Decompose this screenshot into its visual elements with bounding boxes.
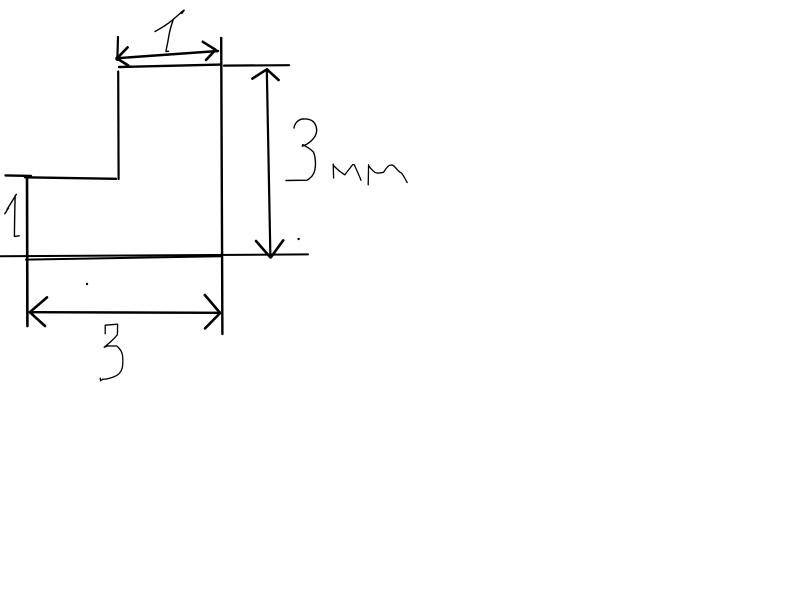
node: right dimension bottom arrowhead: [256, 240, 283, 257]
wire: top dimension line: [117, 51, 218, 58]
wire: left edge of upper block: [117, 72, 120, 180]
value label: digit 3 (bottom dimension): [100, 324, 123, 381]
value label: digit 3 with unit mm (right dimension): [286, 119, 317, 181]
node: top dimension right arrowhead: [203, 42, 216, 60]
node: top dimension arrow tip blob: [115, 56, 120, 61]
node: stray dot left: [86, 283, 88, 285]
wire: step top edge (horizontal shelf): [6, 175, 117, 178]
node: top dimension extension line (left): [116, 37, 119, 58]
node: right dimension top arrowhead: [252, 69, 278, 80]
wire: top edge of upper block: [119, 65, 221, 67]
value label: letter m (second): [368, 165, 407, 185]
node: stray dot right: [297, 238, 299, 240]
node: top dimension left arrowhead: [117, 47, 128, 65]
node: bottom dimension right arrowhead: [205, 295, 220, 328]
wire: bottom dimension line: [30, 311, 220, 314]
value label: letter m (first): [333, 164, 361, 180]
wire: right edge of shape (extends down as extension line): [221, 38, 222, 334]
wire: bottom edge of shape: [26, 256, 221, 259]
wire: right vertical dimension line: [267, 70, 271, 258]
value label: digit 1 (top dimension): [155, 10, 184, 51]
value label: digit 1 (left dimension): [5, 194, 19, 236]
wire: left edge of lower block (extends down as extension line): [26, 179, 29, 327]
node: bottom dimension left arrowhead: [30, 297, 47, 326]
wire: long bottom baseline: [0, 254, 308, 256]
node: right dimension extension line (top): [224, 64, 289, 67]
